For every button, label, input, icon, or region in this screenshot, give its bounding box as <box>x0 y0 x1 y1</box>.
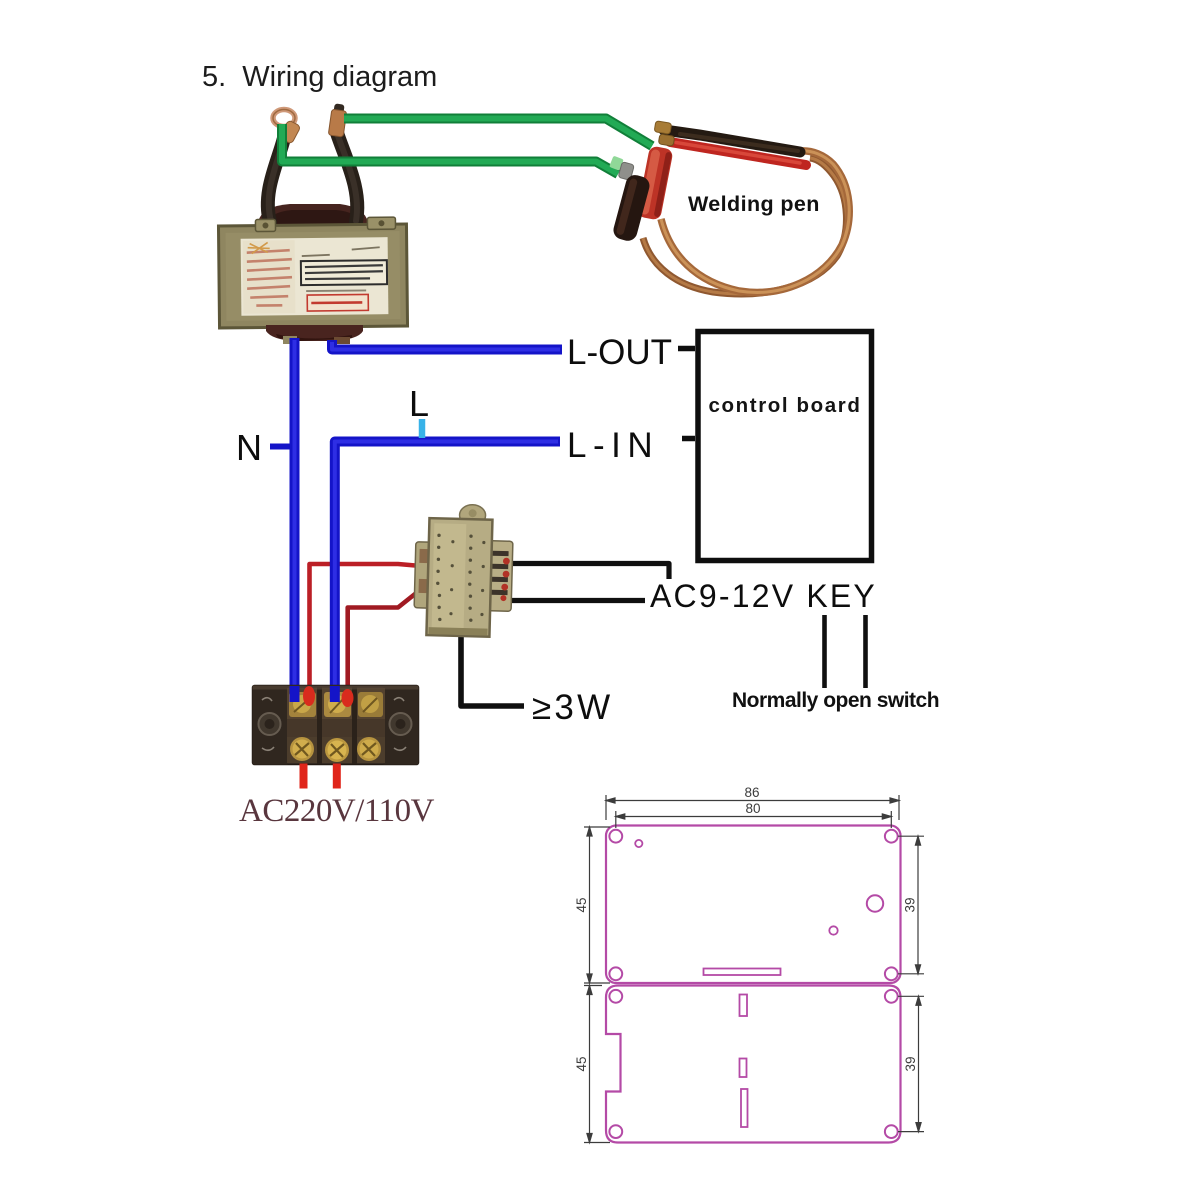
wire red stub AC input 2 <box>333 764 341 789</box>
svg-text:≥3W: ≥3W <box>532 688 613 727</box>
control board pin tick L-IN <box>682 436 695 442</box>
svg-text:AC220V/110V: AC220V/110V <box>239 793 435 829</box>
wire black T2 secondary upper <box>510 564 669 580</box>
terminal block TB1 <box>253 686 419 765</box>
label >=3W <box>532 688 613 727</box>
TB1 bottom row brass screws <box>290 737 381 762</box>
title: 5. Wiring diagram <box>202 61 437 93</box>
transformer T1 bottom bulge <box>266 325 363 344</box>
welding pen electrode rod red <box>670 142 806 165</box>
T1 label <box>241 237 389 316</box>
welding pen black handle <box>611 162 651 243</box>
svg-text:39: 39 <box>903 1056 918 1071</box>
label control board <box>709 394 862 417</box>
welding pen copper cable loop (outer strand) <box>643 158 846 294</box>
wire black KEY lead 1 <box>822 615 827 688</box>
svg-text:Normally open switch: Normally open switch <box>732 689 939 712</box>
control board U1 box <box>698 332 872 561</box>
ring terminal right <box>328 103 346 137</box>
svg-text:L-IN: L-IN <box>567 426 659 465</box>
wire red stub AC input 1 <box>300 764 308 789</box>
plate 2 corner holes <box>609 990 897 1138</box>
welding pen copper cable loop (inner strand) <box>661 151 849 293</box>
wire blue L-IN <box>335 442 560 701</box>
transformer T1 top winding bulge <box>258 204 368 227</box>
svg-text:39: 39 <box>903 897 918 912</box>
label N <box>236 427 262 468</box>
svg-text:45: 45 <box>574 1056 589 1071</box>
wire black T2 secondary lower <box>510 598 645 603</box>
transformer T1 black cable left <box>268 138 284 222</box>
dimension 45 lower <box>574 986 610 1143</box>
dimension 80 <box>616 801 892 828</box>
mechanical drawing: plate 1 outline <box>606 826 901 984</box>
dimension 39 upper <box>898 836 924 974</box>
dimension 39 lower <box>898 996 924 1131</box>
welding pen brass tips <box>654 121 675 146</box>
plate 1 small hole A <box>635 840 642 847</box>
svg-text:L-OUT: L-OUT <box>567 333 672 372</box>
label: Welding pen <box>688 192 820 216</box>
svg-text:5. Wiring diagram: 5. Wiring diagram <box>202 61 437 93</box>
label AC9-12V KEY <box>650 578 877 614</box>
dimension 45 upper <box>574 827 610 983</box>
svg-text:80: 80 <box>745 801 760 816</box>
wire green A (upper, to red pen) <box>344 119 652 147</box>
welding pen electrode rod black <box>664 130 800 152</box>
ring terminal left <box>273 110 301 145</box>
T1 red danger box <box>307 294 368 311</box>
label L-IN <box>567 426 659 465</box>
TB1 top row brass clamps <box>289 692 383 717</box>
svg-text:N: N <box>236 427 262 468</box>
wire blue N vertical <box>290 338 300 702</box>
plate 1 bottom slot <box>704 969 781 976</box>
label AC220V/110V <box>239 793 435 829</box>
dimension 86 <box>606 785 899 820</box>
label Normally open switch <box>732 689 939 712</box>
wire blue L-OUT <box>332 340 562 350</box>
transformer T1 body (microwave transformer photo) <box>218 217 407 328</box>
mechanical drawing: plate 2 outline with left notch <box>606 986 901 1143</box>
wire black T2 bottom to 3W <box>461 634 524 706</box>
label L-OUT <box>567 333 672 372</box>
label L <box>409 383 429 424</box>
svg-text:Welding pen: Welding pen <box>688 192 820 216</box>
plate 1 small hole C <box>829 926 837 934</box>
svg-text:L: L <box>409 383 429 424</box>
node L tick (cyan) <box>419 419 426 438</box>
T1 ratings table <box>301 260 387 285</box>
control board pin tick L-OUT <box>678 346 695 352</box>
plate 2 slot 3 <box>741 1089 748 1127</box>
transformer T2 (small 9-12V transformer) <box>413 503 513 637</box>
plate 2 slot 1 <box>740 995 748 1017</box>
wire red upper (T2 primary to terminal) <box>303 564 421 708</box>
wire black KEY lead 2 <box>863 615 868 688</box>
transformer T1 black cable right <box>337 133 357 222</box>
svg-text:AC9-12V KEY: AC9-12V KEY <box>650 578 877 614</box>
wire red lower (T2 primary to terminal) <box>342 590 421 709</box>
plate 1 large hole B <box>867 895 883 911</box>
wire tips entering terminal block <box>295 686 354 707</box>
node N tick (blue) <box>270 444 292 450</box>
wire green B (lower, to black pen) <box>282 124 624 174</box>
plate 2 slot 2 <box>740 1059 747 1078</box>
svg-text:45: 45 <box>574 897 589 912</box>
svg-text:control board: control board <box>709 394 862 417</box>
svg-text:86: 86 <box>744 785 759 800</box>
welding pen red handle <box>636 145 673 220</box>
plate 1 corner holes <box>609 830 897 980</box>
